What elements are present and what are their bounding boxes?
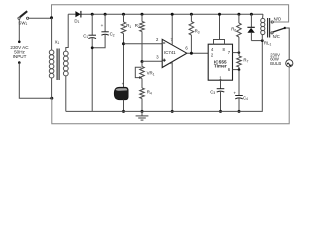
svg-text:RL1: RL1 [264, 41, 272, 47]
node: coil bottom junction [261, 39, 264, 42]
svg-text:+: + [101, 23, 104, 28]
node: AC input upper terminal [18, 41, 21, 44]
label X1 [55, 39, 60, 45]
node: R6 top [237, 13, 240, 16]
switch SW1 [18, 11, 29, 26]
preset VR1 [135, 62, 154, 79]
node: C2 top [104, 13, 107, 16]
node: C4 ground junction [238, 110, 241, 113]
wire: +V DC rail [68, 13, 263, 15]
timer U2 IC555 box [208, 44, 232, 80]
svg-text:D1: D1 [74, 18, 79, 24]
resistor R6 [231, 14, 241, 52]
op-amp U1 IC741 [156, 37, 188, 68]
svg-text:VR1: VR1 [147, 71, 155, 77]
node: R3 bottom / output junction [190, 52, 193, 55]
diode D1 [74, 11, 81, 24]
resistor R4 (below VR1) [140, 79, 152, 112]
wire: pin 3 input wire [142, 60, 162, 62]
wire: top mains rail [52, 5, 289, 22]
svg-text:R2: R2 [135, 23, 140, 29]
node: C1 top [91, 13, 94, 16]
transformer X1 primary winding [49, 18, 54, 98]
capacitor C3 [210, 89, 224, 112]
transformer X1 secondary winding [63, 14, 68, 111]
svg-text:C2: C2 [110, 32, 115, 38]
resistor R3 [189, 14, 200, 53]
capacitor C2 (electrolytic) [92, 14, 115, 48]
resistor R2 [135, 14, 145, 61]
svg-text:C3: C3 [210, 89, 215, 95]
transformer X1 core [57, 49, 59, 81]
svg-text:R6: R6 [231, 27, 236, 33]
svg-text:R3: R3 [195, 29, 200, 35]
ground symbol [136, 111, 149, 120]
bulb (230V 60W) [270, 52, 293, 67]
node: R3 top [190, 13, 193, 16]
wire: 555 pins 4,8 bracket to +V rail [214, 14, 225, 44]
svg-text:INPUT: INPUT [13, 54, 27, 59]
wire: D2 anode to coil bottom [251, 40, 262, 42]
node: R1/LDR junction to pin2 [122, 42, 125, 45]
node: C3 ground junction [219, 110, 222, 113]
node: junction primary bottom / neutral return [50, 97, 53, 100]
node: pin 4 ground junction [171, 110, 174, 113]
svg-text:Timer: Timer [214, 64, 227, 69]
node: LDR bottom on ground rail [122, 110, 125, 113]
svg-text:N/O: N/O [274, 17, 282, 22]
svg-text:BULB: BULB [270, 61, 281, 66]
node: D2 top rail junction [250, 13, 253, 16]
wire: op-amp output to 555 pin 2 [187, 52, 208, 54]
wire: ground rail [66, 41, 262, 112]
svg-text:+: + [233, 91, 236, 96]
svg-text:X1: X1 [55, 39, 60, 45]
node: pin6/R7/C4 junction [238, 68, 241, 71]
node: pin 7 rail junction [171, 13, 174, 16]
node: R6/R7/pin7 junction [238, 51, 241, 54]
wire: 555 pin 1 stub [220, 80, 222, 88]
wire: AC input upper lead [18, 19, 20, 41]
resistor R7 [237, 53, 249, 70]
relay N/O contact [271, 17, 282, 24]
label: 230V AC 50Hz INPUT [10, 45, 29, 59]
relay N/C contact [271, 32, 280, 39]
svg-text:R7: R7 [243, 58, 248, 64]
svg-text:R4: R4 [147, 90, 152, 96]
diode D2 (freewheeling) [247, 14, 254, 40]
svg-text:N/C: N/C [273, 34, 280, 39]
node: 555 Vcc rail junction [218, 13, 221, 16]
wire: pin 7 to +V rail [171, 14, 173, 45]
svg-text:C4: C4 [243, 95, 248, 101]
resistor R1 [121, 14, 131, 87]
node: R2/VR1/pin3 junction [141, 60, 144, 63]
relay armature [273, 27, 289, 60]
relay coil RL1 [261, 14, 272, 46]
wire: 555 pin 6 wire [233, 69, 240, 71]
node: R4 bottom / ground symbol junction [141, 110, 144, 113]
wire: pin 4 to ground rail [171, 62, 173, 112]
wire: 555 pin 7 wire [233, 52, 240, 54]
node: junction switch/top-rail/primary [50, 16, 53, 19]
node: R2 top [141, 13, 144, 16]
wire: pin 2 input wire [124, 43, 163, 45]
node: R1 top [122, 13, 125, 16]
node: C1/C2 bottom junction [91, 46, 94, 49]
wire: neutral return rail (bottom) [52, 67, 289, 124]
svg-text:IC741: IC741 [164, 50, 176, 55]
svg-text:R1: R1 [126, 23, 131, 29]
wire: switch to transformer junction [29, 17, 52, 19]
capacitor C1 [83, 14, 96, 111]
LDR (photoresistor) [114, 81, 128, 111]
svg-text:C1: C1 [83, 33, 88, 39]
node: AC input lower terminal [18, 61, 21, 64]
relay core [268, 18, 270, 38]
capacitor C4 (electrolytic) [233, 70, 248, 112]
wire: AC input lower lead to primary bottom [19, 63, 52, 99]
